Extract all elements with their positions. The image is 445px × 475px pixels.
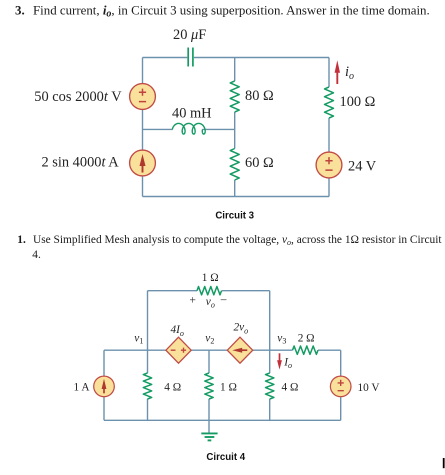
wire v3 vertical lower [269, 350, 271, 420]
wire middle rail top [234, 58, 236, 82]
text cursor mark [443, 458, 445, 468]
wire right rail top [328, 58, 330, 88]
svg-text:vo: vo [206, 296, 215, 310]
current source 1A [94, 376, 115, 397]
wire bottom [104, 419, 341, 421]
resistor 2ohm [293, 346, 319, 354]
wire middle rail bottom [234, 180, 236, 197]
svg-text:1 A: 1 A [74, 382, 91, 394]
svg-text:24 V: 24 V [348, 159, 377, 175]
wire right rail mid [328, 118, 330, 152]
wire left rail lower [142, 176, 144, 197]
resistor 1ohm top [197, 287, 222, 295]
wire middle rail mid [234, 112, 236, 149]
wire bottom [143, 196, 330, 198]
voltage source 24V [316, 152, 342, 178]
svg-text:10 V: 10 V [358, 382, 381, 394]
svg-text:4 Ω: 4 Ω [282, 382, 299, 394]
wire top branch left [148, 290, 198, 292]
svg-text:2 sin 4000t A: 2 sin 4000t A [42, 155, 120, 171]
current arrow io [335, 60, 340, 84]
svg-text:60 Ω: 60 Ω [245, 155, 274, 171]
voltage source 10V [330, 376, 351, 397]
svg-text:v2: v2 [205, 333, 214, 346]
wire v2 stub [208, 350, 210, 433]
svg-text:4Io: 4Io [171, 324, 184, 338]
wire right rail 10V [340, 350, 342, 420]
svg-text:1 Ω: 1 Ω [202, 272, 219, 284]
svg-text:1.Use Simplified Mesh analysis: 1.Use Simplified Mesh analysis to comput… [17, 234, 442, 247]
wire mid rail segs [104, 349, 341, 351]
capacitor C 20uF plates [188, 48, 193, 67]
dependent source 2vo diamond [227, 337, 252, 363]
current source Is 2sin [130, 150, 156, 176]
svg-text:–: – [220, 294, 227, 306]
svg-text:io: io [345, 64, 354, 82]
svg-text:v3: v3 [277, 333, 286, 346]
svg-text:3.Find current, io, in Circuit: 3.Find current, io, in Circuit 3 using s… [15, 3, 430, 19]
svg-text:4.: 4. [32, 249, 41, 261]
wire inductor branch right [202, 128, 234, 130]
svg-text:40 mH: 40 mH [172, 105, 212, 121]
ground [201, 433, 217, 440]
voltage source Vs 50cos [130, 84, 156, 110]
current arrow Io [277, 353, 282, 369]
wire v1 vertical upper [147, 291, 149, 351]
resistor 4ohm b [266, 373, 274, 399]
resistor 4ohm a [143, 373, 151, 399]
resistor 80ohm [230, 81, 239, 112]
svg-text:Circuit 4: Circuit 4 [206, 452, 245, 463]
svg-text:100 Ω: 100 Ω [340, 94, 376, 110]
svg-text:2vo: 2vo [234, 322, 249, 336]
svg-text:80 Ω: 80 Ω [245, 88, 274, 104]
svg-text:2 Ω: 2 Ω [298, 333, 315, 345]
wire left rail middle [142, 110, 144, 151]
wire right rail bottom [328, 178, 330, 197]
wire top branch right [222, 290, 270, 292]
inductor 40mH coil [172, 123, 205, 134]
wire inductor branch left [143, 128, 173, 130]
svg-text:4 Ω: 4 Ω [164, 382, 181, 394]
resistor 100ohm [325, 87, 334, 118]
wire top left segment [143, 57, 188, 59]
wire v3 vertical upper [269, 291, 271, 351]
resistor 60ohm [230, 149, 239, 181]
svg-text:1 Ω: 1 Ω [220, 382, 237, 394]
wire left rail upper [142, 58, 144, 84]
svg-text:+: + [190, 295, 196, 307]
resistor 1ohm b [205, 373, 213, 399]
dependent source 4Io diamond [166, 337, 191, 363]
wire left rail 1A [103, 350, 105, 420]
svg-text:50 cos 2000t V: 50 cos 2000t V [34, 89, 122, 105]
svg-text:20 μF: 20 μF [173, 27, 206, 43]
wire top right segment [194, 57, 329, 59]
svg-text:Io: Io [283, 357, 292, 371]
wire v1 vertical lower [147, 350, 149, 420]
svg-text:v1: v1 [134, 333, 143, 346]
svg-text:Circuit 3: Circuit 3 [215, 211, 254, 222]
